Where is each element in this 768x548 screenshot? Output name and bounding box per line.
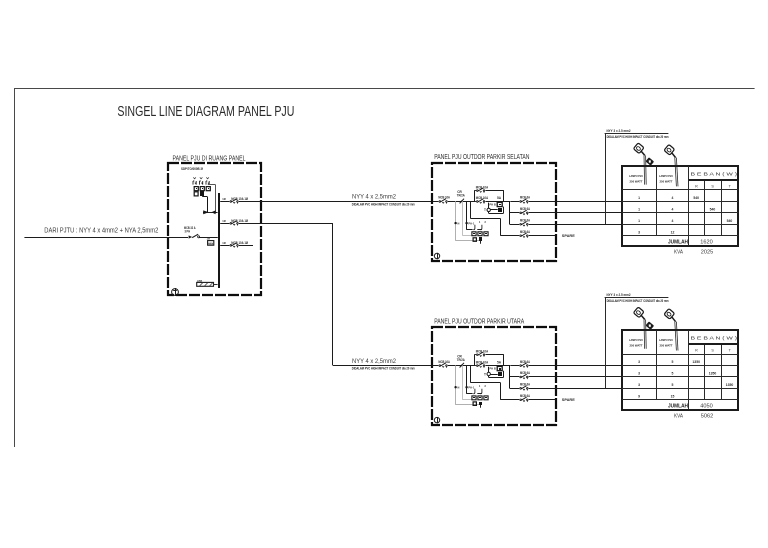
svg-text:MCB 6A: MCB 6A	[520, 371, 531, 375]
svg-text:NYY 3 x 2.5 mm2: NYY 3 x 2.5 mm2	[607, 293, 631, 297]
svg-text:kWh: kWh	[208, 242, 214, 245]
svg-text:SPARE: SPARE	[562, 234, 576, 238]
svg-text:3: 3	[638, 383, 640, 387]
wire lamp circuit P3-3	[509, 388, 622, 390]
MCB P3-B2 "MCB 10A" (main)	[476, 362, 486, 368]
svg-text:SDP/TO/000B 3f: SDP/TO/000B 3f	[181, 167, 204, 171]
MCB P3-B1 "MCB 10A" (bypass)	[476, 351, 486, 357]
svg-text:1Ø: 1Ø	[222, 219, 225, 223]
table T2 row 1 values	[638, 360, 700, 364]
wire incoming feeder	[24, 237, 217, 239]
node N P3	[454, 385, 459, 389]
svg-text:3: 3	[638, 230, 640, 234]
svg-text:LAMPU PJU: LAMPU PJU	[629, 338, 644, 342]
contactor K1	[203, 210, 218, 214]
timer P2-T	[484, 208, 490, 212]
label main switch "MCB 32 A / 3 PH"	[184, 226, 196, 234]
svg-text:MCB 10A 1Ø: MCB 10A 1Ø	[231, 241, 248, 245]
wire spare feed P2	[470, 201, 500, 235]
svg-text:NYY 4 x 2,5mm2: NYY 4 x 2,5mm2	[352, 359, 397, 365]
svg-text:PH B: PH B	[489, 367, 496, 371]
MCB Q1-1 "MCB 10A 1Ø"	[229, 198, 239, 204]
svg-text:T: T	[484, 208, 486, 212]
svg-text:PANEL PJU DI RUANG PANEL: PANEL PJU DI RUANG PANEL	[173, 153, 246, 162]
label T1 "KVA 2025"	[674, 250, 713, 256]
svg-text:LAMPU PJU: LAMPU PJU	[629, 174, 644, 178]
terminal block P3 lower	[473, 402, 476, 406]
svg-text:MCB 6A: MCB 6A	[520, 360, 531, 364]
wire control phase P2 (grey)	[463, 201, 473, 236]
wire bypass loop P3	[474, 355, 503, 366]
panel enclosure P1 "PANEL PJU DI RUANG PANEL"	[168, 163, 261, 295]
table T1 row 1 values	[638, 196, 699, 200]
svg-text:DARI PJTU : NYY 4 x 4mm2 + NYA: DARI PJTU : NYY 4 x 4mm2 + NYA 2,5mm2	[44, 226, 158, 235]
svg-text:4050: 4050	[700, 404, 712, 410]
contact blob P2 lower	[479, 237, 482, 244]
svg-text:5: 5	[672, 383, 674, 387]
svg-text:1: 1	[638, 196, 640, 200]
panel enclosure P3 "PANEL PJU OUTDOR PARKIR UTARA"	[432, 327, 556, 425]
svg-text:TR/2A: TR/2A	[457, 194, 466, 198]
svg-text:2025: 2025	[701, 250, 713, 256]
wire lamp circuit P2-1	[510, 201, 622, 203]
table T1 total row "JUMLAH 1620"	[668, 239, 713, 245]
svg-text:PANEL PJU OUTDOR PARKIR SELATA: PANEL PJU OUTDOR PARKIR SELATAN	[434, 154, 529, 161]
MCB Q1-3 "MCB 10A 1Ø"	[229, 242, 239, 248]
wire timer circuit P2	[489, 203, 504, 214]
svg-text:MCB 6A: MCB 6A	[520, 207, 531, 211]
svg-text:540: 540	[693, 196, 699, 200]
svg-text:4: 4	[672, 196, 674, 200]
svg-text:MCB 10A 1Ø: MCB 10A 1Ø	[231, 197, 248, 201]
sheet symbol circle (panel P3)	[434, 417, 439, 423]
MCB P2-B1 "MCB 10A" (bypass)	[476, 187, 486, 193]
MCB P3-L3 "MCB 6A"	[519, 385, 529, 391]
leader line conduit note S	[605, 133, 669, 224]
wire spare feed P3	[470, 365, 500, 399]
svg-text:MCB 10A: MCB 10A	[476, 196, 489, 200]
label T2 "KVA 5062"	[674, 414, 713, 420]
MCB P2-B2 "MCB 10A" (main)	[476, 198, 486, 204]
node PH-1 P3	[465, 385, 474, 389]
svg-text:1350: 1350	[726, 383, 734, 387]
wire branch 1 busbar to panel P2	[220, 201, 432, 203]
svg-text:250 WATT: 250 WATT	[660, 344, 673, 348]
fuse squares row 2 with contact block	[194, 191, 204, 196]
load table T1 "BEBAN (W)"	[622, 166, 739, 246]
wire control neutral P3 (grey)	[456, 365, 481, 405]
svg-text:R: R	[695, 349, 698, 353]
table T1 row 4 values	[638, 230, 674, 234]
table header T1 column 1 "LAMPU PJU 250 WATT"	[629, 174, 644, 184]
border frame top line	[14, 88, 755, 90]
svg-text:9: 9	[638, 394, 640, 398]
table header T1 phases R S T	[695, 185, 732, 189]
MCB Q1-2 "MCB 10A 1Ø"	[229, 220, 239, 226]
table T1 row 2 values	[638, 208, 715, 212]
svg-text:N: N	[458, 221, 460, 225]
terminal blocks P2 (3)	[472, 232, 488, 236]
wire control neutral P2 (grey)	[456, 201, 481, 241]
svg-text:KVA: KVA	[674, 414, 683, 420]
svg-text:540: 540	[710, 208, 716, 212]
MCB P3-L4 "MCB 6A"	[519, 396, 529, 402]
fuse squares row 1	[194, 187, 210, 191]
wire main P2	[432, 201, 509, 203]
wire lamp circuit P3-1	[510, 365, 622, 367]
wire branch 2 busbar to corner	[220, 223, 333, 225]
relay P2-PH "5A" photocell relay	[497, 196, 502, 206]
svg-text:3: 3	[638, 360, 640, 364]
svg-text:JUMLAH: JUMLAH	[668, 239, 688, 245]
sheet symbol circle (panel P2)	[434, 253, 439, 259]
svg-text:DIDALAM PVC HIGH IMPACT CONDUI: DIDALAM PVC HIGH IMPACT CONDUIT dia 20 m…	[352, 202, 415, 206]
main switch Q0 (incoming disconnect)	[188, 234, 200, 240]
table T2 total row "JUMLAH 4050"	[668, 404, 713, 410]
MCB P2-L3 "MCB 6A"	[519, 221, 529, 227]
MCB P3-IN "MCB 16A"	[438, 362, 448, 368]
relay P3-PH "5A" photocell relay	[497, 360, 502, 370]
svg-text:JUMLAH: JUMLAH	[668, 404, 688, 410]
svg-text:4: 4	[672, 208, 674, 212]
contact blob P3 lower	[479, 402, 482, 408]
wire fuse bank to busbar	[202, 185, 215, 213]
svg-text:1Ø: 1Ø	[207, 237, 210, 241]
wire branch 2 vertical drop	[332, 223, 334, 365]
svg-text:12: 12	[671, 230, 675, 234]
svg-text:15: 15	[671, 394, 675, 398]
svg-text:DIDALAM PVC HIGH IMPACT CONDUI: DIDALAM PVC HIGH IMPACT CONDUIT dia 20 m…	[607, 135, 669, 139]
table T1 row 3 values	[638, 219, 732, 223]
wire spare circuit P2-4	[500, 235, 555, 237]
wire timer circuit P3	[489, 367, 504, 378]
svg-text:DIDALAM PVC HIGH IMPACT CONDUI: DIDALAM PVC HIGH IMPACT CONDUIT dia 20 m…	[352, 366, 415, 370]
svg-text:NYY 3 x 2.5 mm2: NYY 3 x 2.5 mm2	[607, 129, 631, 133]
panel enclosure P2 "PANEL PJU OUTDOR PARKIR SELATAN"	[432, 163, 556, 261]
svg-text:N: N	[458, 385, 460, 389]
terminal hooks P3 with pins 1,3	[473, 385, 486, 394]
contactor P3-CR "CR TR/2A"	[457, 354, 466, 367]
svg-text:DIDALAM PVC HIGH IMPACT CONDUI: DIDALAM PVC HIGH IMPACT CONDUIT dia 20 m…	[607, 299, 669, 303]
svg-text:R: R	[695, 185, 698, 189]
table header T2 phases R S T	[695, 349, 732, 353]
svg-text:T: T	[484, 372, 486, 376]
svg-text:MCB 6A: MCB 6A	[520, 196, 531, 200]
svg-text:MCB 10A: MCB 10A	[476, 350, 489, 354]
svg-text:1350: 1350	[692, 360, 700, 364]
svg-text:PH B: PH B	[489, 202, 496, 206]
leader line conduit note U	[605, 298, 669, 389]
street lamp S-B	[664, 144, 678, 186]
timer P3-T	[484, 372, 490, 376]
svg-text:1Ø: 1Ø	[222, 241, 225, 245]
svg-text:MCB 6A: MCB 6A	[520, 219, 531, 223]
svg-text:PANEL PJU OUTDOR PARKIR UTARA: PANEL PJU OUTDOR PARKIR UTARA	[434, 318, 524, 325]
terminal block P2 lower	[473, 238, 476, 242]
terminal hooks P2 with pins 1,3	[473, 221, 486, 230]
wire lamp circuit P2-3	[509, 224, 622, 226]
svg-text:5A: 5A	[497, 360, 502, 364]
svg-text:MCB 10A 1Ø: MCB 10A 1Ø	[231, 219, 248, 223]
svg-text:4: 4	[672, 219, 674, 223]
earth bar E1	[197, 280, 218, 287]
fuse bank F1 (3 fuse holders)	[193, 177, 209, 184]
svg-text:PH-1: PH-1	[468, 221, 474, 225]
sheet symbol circle 1 (panel P1)	[172, 288, 179, 296]
svg-text:MCB 16A: MCB 16A	[438, 196, 450, 200]
street lamp U-B	[664, 309, 678, 351]
svg-text:3: 3	[638, 372, 640, 376]
MCB P2-L4 "MCB 6A"	[519, 232, 529, 238]
svg-text:MCB 6A: MCB 6A	[520, 394, 531, 398]
MCB P2-L1 "MCB 6A"	[519, 198, 529, 204]
svg-text:MCB 10A: MCB 10A	[476, 360, 489, 364]
svg-text:LAMPU PJU: LAMPU PJU	[659, 174, 674, 178]
svg-text:MCB 6A: MCB 6A	[520, 230, 531, 234]
node N P2	[454, 221, 459, 225]
table T2 row 3 values	[638, 383, 733, 387]
svg-text:NYY 4 x 2,5mm2: NYY 4 x 2,5mm2	[352, 195, 397, 201]
svg-text:1: 1	[638, 219, 640, 223]
wire branch 2 to panel P3	[333, 365, 433, 367]
street lamp S-A	[633, 143, 654, 185]
svg-text:250 WATT: 250 WATT	[660, 179, 673, 183]
svg-text:5: 5	[672, 372, 674, 376]
street lamp U-A	[633, 307, 654, 349]
node PH-1 P2	[465, 221, 474, 225]
MCB P3-L2 "MCB 6A"	[519, 374, 529, 380]
svg-text:B E B A N ( W ): B E B A N ( W )	[691, 336, 738, 341]
svg-text:1350: 1350	[709, 372, 717, 376]
svg-text:5: 5	[672, 360, 674, 364]
table header T2 column 2 "LAMPU PJU 250 WATT"	[659, 338, 674, 348]
wire spare circuit P3-4	[500, 399, 555, 401]
svg-text:250 WATT: 250 WATT	[630, 179, 643, 183]
wire contactor coil feed P3	[467, 365, 473, 393]
svg-text:SINGEL LINE DIAGRAM PANEL PJU: SINGEL LINE DIAGRAM PANEL PJU	[117, 103, 294, 120]
table header T2 column 1 "LAMPU PJU 250 WATT"	[629, 338, 644, 348]
busbar P2-bus (vertical)	[509, 201, 510, 224]
table T2 row 2 values	[638, 372, 716, 376]
terminal blocks P3 (3)	[472, 396, 488, 400]
wire control phase P3 (grey)	[463, 365, 473, 400]
svg-text:LAMPU PJU: LAMPU PJU	[659, 338, 674, 342]
svg-text:3 PH: 3 PH	[185, 230, 191, 234]
svg-text:MCB 10A: MCB 10A	[476, 186, 489, 190]
wire branch 3 spare	[220, 245, 253, 247]
svg-text:MCB 16A: MCB 16A	[438, 360, 450, 364]
svg-text:SPARE: SPARE	[562, 398, 576, 402]
border frame left line	[14, 89, 16, 447]
svg-text:PH-1: PH-1	[468, 385, 474, 389]
svg-text:5A: 5A	[497, 196, 502, 200]
svg-text:5062: 5062	[701, 414, 713, 420]
kWh meter M1	[207, 237, 214, 246]
table T2 row 4 values	[638, 394, 674, 398]
svg-text:1Ø: 1Ø	[222, 197, 225, 201]
svg-text:KVA: KVA	[674, 250, 683, 256]
MCB P2-IN "MCB 16A"	[438, 198, 448, 204]
svg-text:TR/2A: TR/2A	[457, 358, 466, 362]
svg-text:MCB 6A: MCB 6A	[520, 383, 531, 387]
MCB P2-L2 "MCB 6A"	[519, 209, 529, 215]
svg-text:250 WATT: 250 WATT	[630, 344, 643, 348]
svg-text:1620: 1620	[700, 239, 712, 245]
MCB P3-L1 "MCB 6A"	[519, 362, 529, 368]
svg-text:540: 540	[727, 219, 733, 223]
load table T2 "BEBAN (W)"	[622, 330, 739, 410]
table header T1 column 2 "LAMPU PJU 250 WATT"	[659, 174, 674, 184]
wire bypass loop P2	[474, 190, 503, 201]
wire contactor coil feed P2	[467, 201, 473, 229]
wire lamp circuit P2-2	[509, 212, 622, 214]
svg-text:1: 1	[638, 208, 640, 212]
busbar P3-bus (vertical)	[509, 365, 510, 388]
contactor P2-CR "CR TR/2A"	[457, 190, 466, 203]
wire main P3	[432, 365, 509, 367]
wire lamp circuit P3-2	[509, 376, 622, 378]
busbar B1 (vertical)	[218, 193, 220, 288]
svg-text:B E B A N ( W ): B E B A N ( W )	[691, 171, 738, 176]
